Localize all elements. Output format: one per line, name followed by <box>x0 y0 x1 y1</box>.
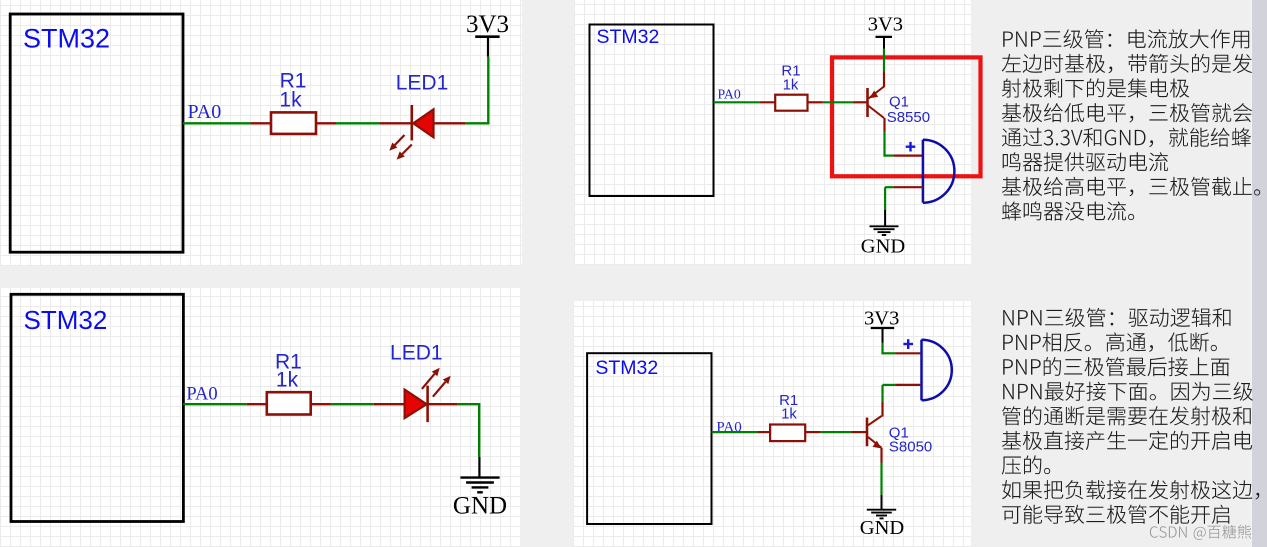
ground GND <box>861 210 905 258</box>
wire R1 to LED1 <box>316 122 411 124</box>
schematic panel top-left <box>0 0 522 266</box>
ground GND <box>860 495 904 539</box>
scrollbar strip <box>1251 0 1267 547</box>
buzzer LS1 polarity + <box>903 339 913 349</box>
transistor Q1 S8050 NPN <box>867 416 932 455</box>
wire PA0 to R1 <box>712 431 772 433</box>
MCU U1 STM32 <box>11 294 183 521</box>
wire PA0 to R1 <box>714 101 776 103</box>
transistor Q1 S8550 PNP <box>868 87 931 127</box>
wire Q1 emitter to GND <box>880 448 882 495</box>
wire R1 to Q1 base <box>805 431 866 433</box>
schematic panel top-right <box>574 0 971 265</box>
wire R1 to LED1 <box>311 403 405 405</box>
wire LED1 to 3V3 <box>434 57 490 125</box>
schematic panel bottom-right <box>573 301 971 547</box>
resistor R1 <box>770 392 805 441</box>
buzzer LS1 polarity + <box>906 142 916 152</box>
ground GND <box>453 457 507 520</box>
MCU U1 STM32 <box>590 25 714 197</box>
wire 3V3 to buzzer <box>883 343 921 355</box>
wire Q1 collector to buzzer <box>885 118 923 157</box>
LED LED1 <box>389 72 448 160</box>
PNP explanation text <box>1003 29 1249 48</box>
wire PA0 to R1 <box>183 122 272 124</box>
resistor R1 <box>267 350 311 414</box>
MCU U1 STM32 <box>587 353 711 524</box>
MCU U1 STM32 <box>10 14 183 252</box>
buzzer LS1 <box>923 140 955 203</box>
resistor R1 <box>271 70 316 134</box>
wire R1 to Q1 base <box>808 101 868 103</box>
wire PA0 to R1 <box>183 403 268 405</box>
wire buzzer to GND <box>885 187 923 210</box>
watermark CSDN <box>1150 525 1251 540</box>
power 3V3 <box>868 14 903 49</box>
annotation red highlight box <box>832 57 981 176</box>
resistor R1 <box>775 63 807 111</box>
NPN explanation text <box>1003 308 1230 327</box>
buzzer LS1 <box>922 340 952 401</box>
power 3V3 <box>864 308 899 343</box>
power 3V3 <box>466 11 509 57</box>
wire Q1 emitter to 3V3 <box>883 49 885 87</box>
schematic panel bottom-left <box>0 288 520 547</box>
wire buzzer to Q1 collector <box>883 385 921 417</box>
wire LED1 to GND <box>428 404 480 457</box>
LED LED1 <box>390 342 451 423</box>
